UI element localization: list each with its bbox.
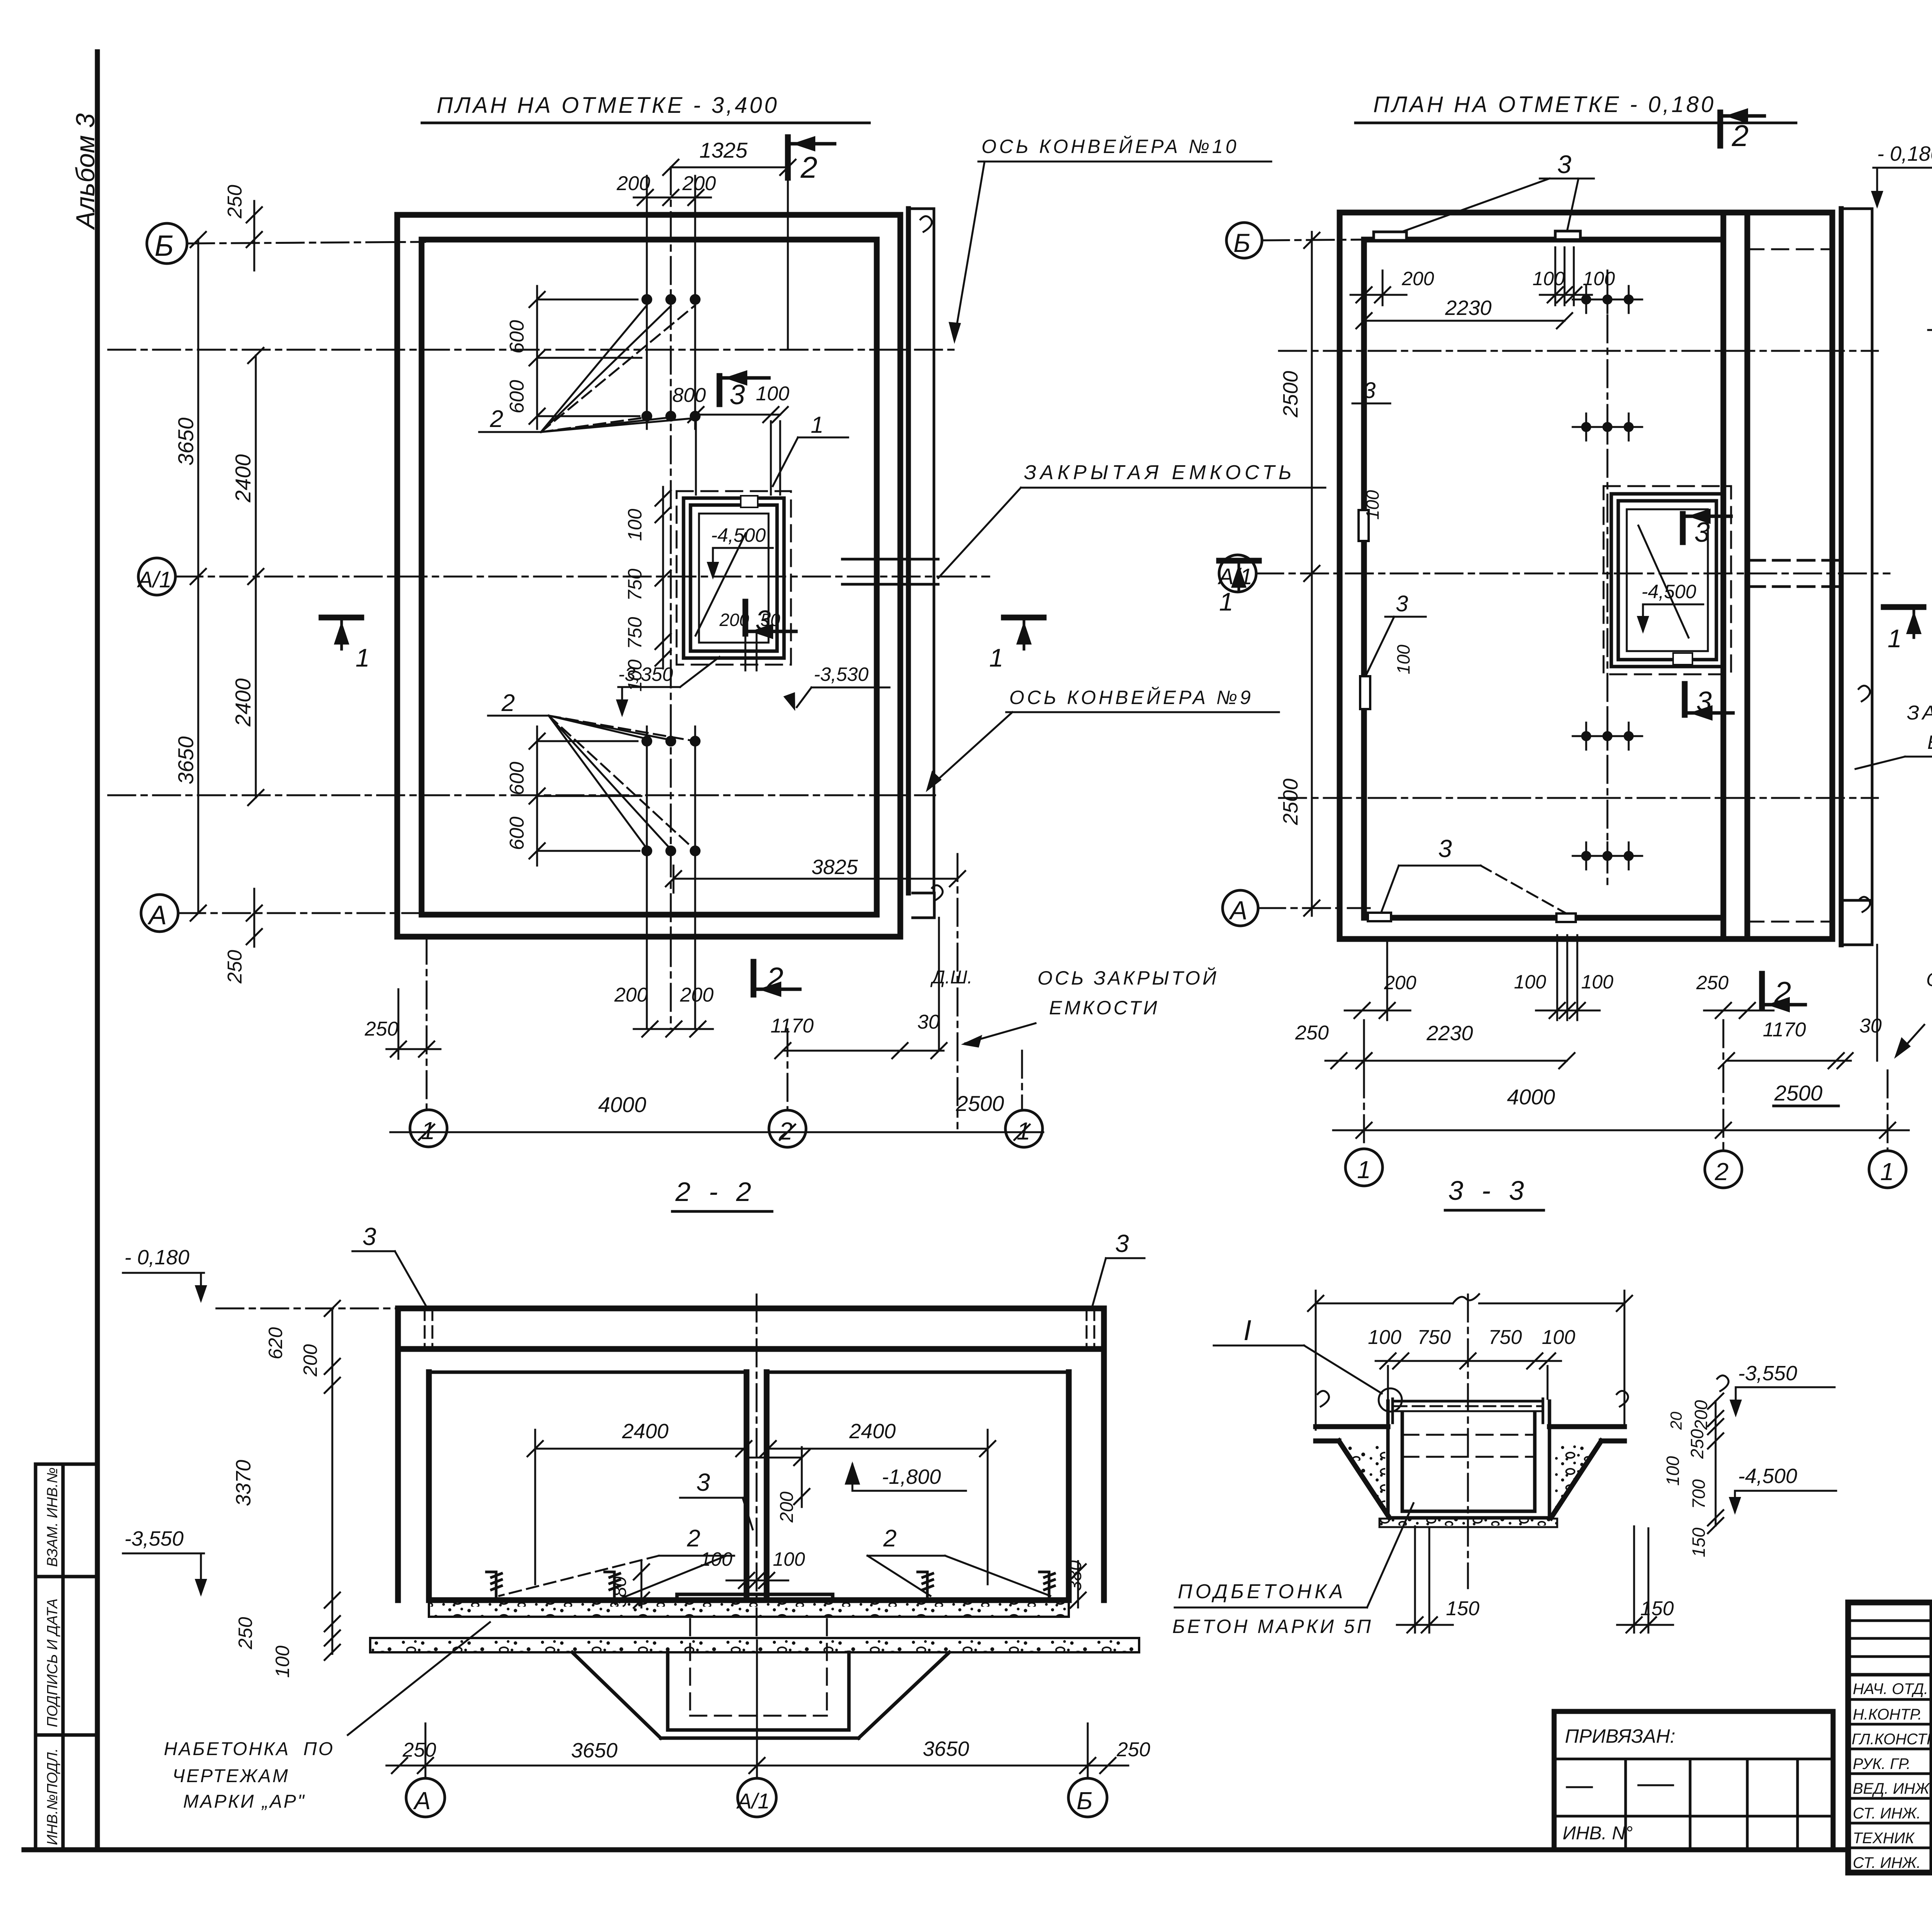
pit walls solid xyxy=(668,1652,849,1730)
pit embedded notch top xyxy=(741,496,758,507)
svg-text:ЕМКОСТИ: ЕМКОСТИ xyxy=(1049,997,1160,1019)
svg-text:3: 3 xyxy=(362,1223,376,1250)
dashed anchors through top slab xyxy=(425,1308,1094,1349)
ceiling lines xyxy=(429,1371,1069,1374)
svg-text:2: 2 xyxy=(1714,1158,1729,1186)
svg-text:-4,500: -4,500 xyxy=(711,524,766,546)
svg-text:-4,500: -4,500 xyxy=(1738,1465,1797,1488)
pit outer walls xyxy=(1388,1401,1549,1518)
embedded frame at pit top xyxy=(1393,1400,1543,1403)
svg-text:100: 100 xyxy=(1362,490,1383,520)
section 2 flag bottom plan2 xyxy=(1759,974,1765,1008)
bottom axis circle 1 xyxy=(410,1110,447,1147)
svg-text:2500: 2500 xyxy=(956,1091,1004,1116)
axis extension stubs xyxy=(427,937,1022,1110)
svg-text:1: 1 xyxy=(1888,624,1902,653)
svg-text:2: 2 xyxy=(883,1525,896,1552)
bottom corner tab + middle tab with callout 3 xyxy=(1368,913,1391,921)
axis A circle xyxy=(141,895,178,932)
level line -1800 on middle wall xyxy=(747,1457,800,1459)
svg-text:620: 620 xyxy=(265,1327,286,1359)
svg-text:250: 250 xyxy=(235,1617,256,1650)
section 3 flag upper xyxy=(717,376,723,404)
svg-text:3: 3 xyxy=(1438,835,1452,862)
svg-text:150: 150 xyxy=(1640,1597,1674,1620)
left wall tab 1 with callout 3 xyxy=(1359,510,1369,541)
section 2-2 circle A xyxy=(406,1778,445,1817)
svg-text:100: 100 xyxy=(1393,645,1413,674)
axis A/1 line xyxy=(175,576,989,578)
top reference dim line with break xyxy=(1316,1291,1624,1430)
section 3 flag lower plan2 xyxy=(1682,684,1688,715)
svg-text:800: 800 xyxy=(672,384,706,407)
plan2 pit wall rects xyxy=(1611,494,1723,667)
level line stub xyxy=(216,1308,398,1310)
plan2 axis A/1 line xyxy=(1256,573,1889,575)
plan2 conveyor axes xyxy=(1279,351,1878,798)
plan2 left dim chain 2500/2500 xyxy=(1311,232,1313,916)
plan2 pit fold diagonal xyxy=(1638,526,1689,638)
main table outer border xyxy=(1848,1602,1932,1873)
svg-text:1: 1 xyxy=(811,412,823,438)
svg-text:2: 2 xyxy=(800,150,817,184)
svg-text:Д.Ш.: Д.Ш. xyxy=(930,967,973,988)
svg-text:ВЕД. ИНЖ: ВЕД. ИНЖ xyxy=(1853,1780,1930,1797)
lean concrete band under pit xyxy=(1379,1519,1557,1527)
svg-text:Б: Б xyxy=(155,230,173,262)
svg-text:4000: 4000 xyxy=(1507,1085,1555,1109)
svg-text:100: 100 xyxy=(1532,268,1565,289)
pit trapezoid slopes xyxy=(572,1652,949,1738)
plan2 axis extension stubs xyxy=(1364,1020,1888,1150)
plan2 inner wall lines xyxy=(1364,240,1723,918)
right dim chain 3-3 xyxy=(1715,1401,1717,1526)
svg-text:2400: 2400 xyxy=(231,678,255,727)
rebar dots lower group xyxy=(641,736,701,856)
svg-text:НАБЕТОНКА ПО: НАБЕТОНКА ПО xyxy=(164,1739,334,1759)
svg-text:1325: 1325 xyxy=(699,138,748,162)
plan2 axis B circle xyxy=(1226,223,1262,258)
trapezoid slopes xyxy=(1339,1441,1601,1518)
svg-text:ПЛАН НА ОТМЕТКЕ - 3,400: ПЛАН НА ОТМЕТКЕ - 3,400 xyxy=(437,93,779,118)
section 1 flag right plan2 xyxy=(1884,604,1923,610)
axis dash line left xyxy=(1928,329,1932,331)
svg-text:РУК. ГР.: РУК. ГР. xyxy=(1853,1755,1911,1772)
svg-text:750: 750 xyxy=(1417,1326,1451,1349)
svg-text:100: 100 xyxy=(624,509,646,541)
svg-text:ПРИВЯЗАН:: ПРИВЯЗАН: xyxy=(1565,1725,1675,1747)
left wall tab 2 with callout 3 xyxy=(1360,676,1370,709)
svg-text:4000: 4000 xyxy=(598,1092,646,1117)
plan2 middle wall pair at axis 2 xyxy=(1723,213,1747,939)
svg-text:600: 600 xyxy=(506,320,528,354)
sump curb on floor xyxy=(677,1594,833,1600)
plan1 inner wall rectangle xyxy=(422,240,877,915)
svg-text:100: 100 xyxy=(272,1645,293,1678)
svg-text:100: 100 xyxy=(1581,971,1614,993)
conveyor opening lines plan1 xyxy=(842,559,938,584)
plan2 bottom circle 2 xyxy=(1705,1151,1742,1188)
axis B circle xyxy=(147,223,187,264)
plan2 pit notch bottom xyxy=(1673,653,1692,665)
inner walls xyxy=(429,1372,1069,1600)
tank strip lower thin line xyxy=(938,918,940,1051)
svg-text:ЗАКРЫТАЯ: ЗАКРЫТАЯ xyxy=(1907,702,1932,724)
hidden dashed lines in pit xyxy=(1402,1435,1535,1457)
svg-text:30: 30 xyxy=(917,1011,940,1033)
svg-text:-4,500: -4,500 xyxy=(1641,581,1696,602)
svg-text:3: 3 xyxy=(1363,378,1376,403)
svg-text:- 0,180: - 0,180 xyxy=(1877,142,1932,165)
conveyor 10 axis line xyxy=(108,349,958,351)
svg-text:750: 750 xyxy=(1488,1326,1522,1349)
svg-text:А: А xyxy=(147,900,167,930)
center axis dash xyxy=(1467,1294,1469,1588)
section 3 flag upper plan2 xyxy=(1680,514,1686,542)
top slab lines xyxy=(398,1308,1104,1349)
left mini dim 250 bottom xyxy=(253,889,255,947)
tank strip break squiggles plan2 xyxy=(1859,685,1870,912)
svg-text:СТ. ИНЖ.: СТ. ИНЖ. xyxy=(1853,1805,1921,1822)
svg-text:2: 2 xyxy=(687,1525,700,1552)
section 2 flag top xyxy=(785,137,791,178)
plan2 bottom circle 1 right xyxy=(1869,1151,1906,1188)
privyazan box xyxy=(1554,1711,1833,1850)
svg-text:БЕТОН МАРКИ 5П: БЕТОН МАРКИ 5П xyxy=(1172,1616,1373,1637)
svg-text:150: 150 xyxy=(1689,1527,1709,1557)
pit outer bottom xyxy=(1388,1516,1549,1520)
axis B line xyxy=(187,242,425,243)
pit inner bottom xyxy=(1402,1510,1535,1513)
break squiggles 3-3 xyxy=(1318,1375,1728,1407)
svg-text:ИНВ. N°: ИНВ. N° xyxy=(1563,1823,1633,1844)
svg-text:3: 3 xyxy=(1396,591,1408,616)
svg-text:200: 200 xyxy=(682,172,716,195)
svg-text:600: 600 xyxy=(506,762,528,795)
svg-text:2: 2 xyxy=(490,406,503,432)
tank axis vertical dash line xyxy=(957,854,959,1128)
svg-text:А: А xyxy=(1228,896,1247,925)
plan2 title underline xyxy=(1355,122,1796,124)
axis stubs xyxy=(425,1640,1088,1778)
svg-text:-3,550: -3,550 xyxy=(1738,1362,1797,1385)
svg-text:НАЧ. ОТД.: НАЧ. ОТД. xyxy=(1853,1681,1928,1698)
svg-text:ИНВ.№ПОДЛ.: ИНВ.№ПОДЛ. xyxy=(44,1748,61,1845)
svg-text:250: 250 xyxy=(364,1018,398,1040)
svg-text:-3,350: -3,350 xyxy=(618,663,673,685)
svg-text:2400: 2400 xyxy=(622,1420,668,1443)
svg-text:ПЛАН НА ОТМЕТКЕ - 0,180: ПЛАН НА ОТМЕТКЕ - 0,180 xyxy=(1373,92,1716,117)
svg-text:100: 100 xyxy=(700,1548,733,1570)
svg-text:3370: 3370 xyxy=(232,1460,255,1506)
left dim chain: 620 200 3370 250 100 xyxy=(332,1308,333,1654)
svg-text:100: 100 xyxy=(1368,1326,1401,1349)
frame bottom border line xyxy=(24,1847,1848,1852)
top anchor tab 2 xyxy=(1555,231,1580,240)
axis A/1 circle xyxy=(138,558,175,595)
svg-text:3650: 3650 xyxy=(571,1739,617,1762)
section 2-2 circle A/1 xyxy=(738,1778,776,1817)
svg-text:250: 250 xyxy=(1687,1429,1707,1459)
closed tank wall strip right of plan1 xyxy=(906,209,911,893)
svg-text:30: 30 xyxy=(1859,1015,1882,1037)
pit wall rectangles xyxy=(684,498,784,658)
svg-text:3: 3 xyxy=(696,1468,710,1496)
plan2 bottom circle 1 xyxy=(1345,1149,1383,1186)
section 2 flag top plan2 xyxy=(1718,112,1723,146)
svg-text:А/1: А/1 xyxy=(137,567,172,592)
svg-text:ЧЕРТЕЖАМ: ЧЕРТЕЖАМ xyxy=(172,1766,289,1786)
dot column lines lower xyxy=(647,726,695,1029)
svg-text:А: А xyxy=(413,1787,431,1815)
section 2-2 cut line trace xyxy=(787,178,789,350)
svg-text:200: 200 xyxy=(614,984,648,1006)
svg-text:50: 50 xyxy=(760,610,781,630)
svg-text:1170: 1170 xyxy=(770,1015,814,1037)
plus-dot anchors upper xyxy=(1573,270,1642,711)
svg-text:2500: 2500 xyxy=(1279,779,1302,825)
left margin stamp boxes xyxy=(36,1464,97,1850)
svg-text:200: 200 xyxy=(1401,268,1434,289)
svg-text:2: 2 xyxy=(501,690,515,716)
svg-text:1170: 1170 xyxy=(1763,1019,1806,1041)
dot column lines upper xyxy=(647,176,695,429)
pit dashed outer rectangle xyxy=(677,491,791,665)
pit fold diagonal xyxy=(696,533,746,636)
svg-text:ОСЬ КОНВЕЙЕРА №9: ОСЬ КОНВЕЙЕРА №9 xyxy=(1009,687,1253,708)
svg-text:ТЕХНИК: ТЕХНИК xyxy=(1853,1830,1915,1847)
svg-text:МАРКИ „АР": МАРКИ „АР" xyxy=(183,1791,306,1812)
plan2 outer wall rectangle xyxy=(1340,213,1832,939)
conveyor opening lines plan2 xyxy=(1748,560,1841,587)
svg-text:750: 750 xyxy=(624,568,646,601)
svg-text:1: 1 xyxy=(421,1117,435,1145)
svg-text:150: 150 xyxy=(1446,1597,1480,1620)
section 2-2 circle B xyxy=(1068,1778,1107,1817)
axis A line xyxy=(178,912,425,914)
svg-text:1: 1 xyxy=(1880,1158,1894,1186)
svg-text:-3,530: -3,530 xyxy=(814,663,869,685)
svg-text:2500: 2500 xyxy=(1774,1081,1823,1105)
section 1 flag left plan2 xyxy=(1219,558,1259,564)
bottom axis circle 2 xyxy=(769,1110,806,1147)
svg-text:250: 250 xyxy=(1295,1022,1329,1044)
plus-dot anchors lower xyxy=(1573,711,1642,889)
svg-text:200: 200 xyxy=(1691,1400,1711,1430)
svg-text:2: 2 xyxy=(1774,975,1791,1009)
svg-text:2400: 2400 xyxy=(849,1420,896,1443)
corridor hidden dashed lines xyxy=(1747,249,1832,922)
svg-text:100: 100 xyxy=(1583,268,1615,289)
svg-text:ГЛ.КОНСТР: ГЛ.КОНСТР xyxy=(1852,1731,1932,1748)
lower 600/600 dim chain xyxy=(537,726,641,866)
svg-text:250: 250 xyxy=(224,950,246,984)
svg-text:2: 2 xyxy=(766,961,783,995)
tank strip break squiggles xyxy=(920,216,943,900)
svg-text:А/1: А/1 xyxy=(736,1789,770,1813)
svg-text:250: 250 xyxy=(1116,1738,1150,1761)
plan2 axis A circle xyxy=(1223,890,1258,926)
svg-text:ПОДБЕТОНКА: ПОДБЕТОНКА xyxy=(1178,1580,1346,1603)
svg-text:- 0,180: - 0,180 xyxy=(124,1246,189,1269)
middle wall axis dash xyxy=(756,1294,758,1640)
svg-text:1: 1 xyxy=(355,643,370,672)
svg-text:2230: 2230 xyxy=(1445,296,1492,320)
svg-text:2400: 2400 xyxy=(231,454,255,503)
svg-text:3: 3 xyxy=(1557,150,1571,179)
svg-text:250: 250 xyxy=(224,185,246,219)
svg-text:2: 2 xyxy=(779,1117,793,1145)
svg-text:750: 750 xyxy=(624,617,646,649)
left inner dim chain 2400/2400 xyxy=(255,356,257,798)
svg-text:Н.КОНТР.: Н.КОНТР. xyxy=(1853,1706,1922,1723)
svg-text:100: 100 xyxy=(1663,1456,1683,1486)
bottom axis circle 1 right xyxy=(1005,1110,1043,1147)
svg-text:Б: Б xyxy=(1233,228,1250,258)
svg-text:I: I xyxy=(1243,1314,1252,1346)
rebar pins xyxy=(486,1572,1054,1600)
svg-text:ПОДПИСЬ И ДАТА: ПОДПИСЬ И ДАТА xyxy=(44,1599,61,1727)
svg-text:20: 20 xyxy=(1667,1412,1685,1430)
svg-text:200: 200 xyxy=(616,172,650,195)
plan1 title underline xyxy=(422,122,869,124)
svg-text:3: 3 xyxy=(1694,517,1710,548)
svg-text:250: 250 xyxy=(1696,972,1729,993)
svg-text:250: 250 xyxy=(402,1739,436,1761)
svg-text:3650: 3650 xyxy=(923,1737,969,1761)
left outer dim chain 3650/3650 xyxy=(197,240,199,913)
tank wall strip right of plan2 xyxy=(1839,209,1844,945)
svg-text:1: 1 xyxy=(989,643,1003,672)
svg-text:200: 200 xyxy=(299,1344,321,1377)
svg-text:2230: 2230 xyxy=(1426,1022,1473,1045)
plan1 outer wall rectangle xyxy=(397,215,900,937)
svg-text:ЗАКРЫТАЯ ЕМКОСТЬ: ЗАКРЫТАЯ ЕМКОСТЬ xyxy=(1024,461,1296,484)
svg-text:1: 1 xyxy=(1357,1156,1371,1184)
svg-text:-1,800: -1,800 xyxy=(882,1465,941,1488)
svg-text:1: 1 xyxy=(1219,587,1233,616)
svg-text:3825: 3825 xyxy=(811,856,858,879)
svg-text:100: 100 xyxy=(756,383,789,405)
plan2 axis A/1 circle xyxy=(1219,555,1256,592)
svg-text:3650: 3650 xyxy=(173,417,198,466)
section 2 flag bottom xyxy=(751,962,757,995)
pit dashed void xyxy=(690,1619,827,1716)
upper 600/600 dim chain xyxy=(537,286,641,429)
svg-text:200: 200 xyxy=(1384,972,1417,993)
floor line xyxy=(429,1597,1069,1603)
svg-text:700: 700 xyxy=(1689,1479,1709,1509)
svg-text:ЕМКОСТЬ: ЕМКОСТЬ xyxy=(1927,731,1932,753)
top anchor tab 1 xyxy=(1374,232,1406,240)
section 1 flag left xyxy=(321,615,361,621)
frame left border line xyxy=(95,52,100,1850)
svg-text:100: 100 xyxy=(773,1548,805,1570)
svg-text:3: 3 xyxy=(1696,686,1712,717)
svg-text:ВЗАМ. ИНВ.№: ВЗАМ. ИНВ.№ xyxy=(44,1467,61,1567)
svg-text:600: 600 xyxy=(506,816,528,850)
svg-text:ОСЬ ЗАКРЫТОЙ: ОСЬ ЗАКРЫТОЙ xyxy=(1037,967,1219,989)
bottom dim line xyxy=(386,1765,1128,1767)
rebar dots upper group xyxy=(641,294,701,422)
svg-text:3: 3 xyxy=(1115,1230,1129,1257)
pebble triangles xyxy=(1343,1445,1387,1513)
main table horizontal lines xyxy=(1848,1621,1932,1657)
section 3 flag lower xyxy=(743,602,748,634)
main table vertical lines xyxy=(1931,1602,1932,1873)
svg-text:ОСЬ ЗАКРЫТОЙ: ОСЬ ЗАКРЫТОЙ xyxy=(1926,969,1932,990)
floor slab band xyxy=(429,1602,1069,1617)
svg-text:200: 200 xyxy=(777,1492,797,1523)
section 1 flag right xyxy=(1004,615,1044,621)
svg-text:100: 100 xyxy=(1514,971,1546,993)
plan2 axis A line xyxy=(1258,907,1370,909)
svg-text:2: 2 xyxy=(1731,119,1748,153)
svg-text:2500: 2500 xyxy=(1279,371,1302,418)
middle wall xyxy=(747,1372,767,1600)
plan2 axis B line xyxy=(1262,240,1368,240)
conveyor 9 axis line xyxy=(108,794,935,796)
svg-text:3: 3 xyxy=(730,379,745,410)
svg-text:600: 600 xyxy=(506,380,528,413)
svg-text:2 - 2: 2 - 2 xyxy=(675,1177,757,1207)
svg-text:200: 200 xyxy=(680,984,714,1006)
foundation slab band (nabetonka) xyxy=(370,1638,1139,1652)
svg-text:1: 1 xyxy=(1017,1117,1031,1145)
left mini dim 250 top xyxy=(253,201,255,270)
svg-text:200: 200 xyxy=(719,610,749,630)
svg-text:3 - 3: 3 - 3 xyxy=(1448,1175,1529,1206)
floor slab lines xyxy=(1316,1427,1624,1441)
svg-text:Б: Б xyxy=(1077,1787,1093,1815)
svg-text:СТ. ИНЖ.: СТ. ИНЖ. xyxy=(1853,1854,1921,1871)
pit left dim chain 100/750/750/100 xyxy=(662,487,664,668)
svg-text:100: 100 xyxy=(1542,1326,1575,1349)
svg-text:ОСЬ КОНВЕЙЕРА №10: ОСЬ КОНВЕЙЕРА №10 xyxy=(981,136,1239,157)
svg-text:-3,550: -3,550 xyxy=(124,1527,184,1550)
outer walls xyxy=(398,1308,1104,1600)
svg-text:3650: 3650 xyxy=(173,736,198,784)
svg-text:Альбом 3: Альбом 3 xyxy=(71,113,100,230)
plan2 pit dashed rect xyxy=(1604,486,1731,674)
